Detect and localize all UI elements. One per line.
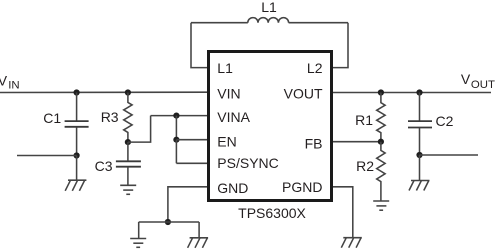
wire to earth ground bottom left bbox=[138, 222, 140, 239]
ground chassis under PGND bbox=[341, 238, 362, 248]
node VOUT rail bbox=[333, 92, 491, 94]
wire C1 bottom bbox=[76, 127, 78, 155]
resistor R2 bbox=[377, 142, 385, 201]
svg-text:PS/SYNC: PS/SYNC bbox=[217, 155, 278, 171]
svg-text:EN: EN bbox=[217, 133, 236, 149]
svg-text:OUT: OUT bbox=[471, 79, 495, 91]
node C1 top junction bbox=[74, 89, 80, 95]
wire PGND pin bbox=[333, 187, 353, 238]
svg-text:IN: IN bbox=[8, 80, 19, 92]
ground chassis bottom middle bbox=[188, 238, 209, 248]
wire C1 top bbox=[76, 93, 78, 121]
ground earth under C3 bbox=[120, 185, 136, 194]
op-amp U1 : IC box TPS6300X bbox=[209, 52, 332, 201]
node VINA junction bbox=[173, 113, 179, 119]
wire EN pin bbox=[176, 139, 207, 141]
ground earth bottom middle bbox=[130, 239, 146, 248]
svg-text:L1: L1 bbox=[261, 0, 277, 15]
svg-text:L1: L1 bbox=[217, 60, 233, 76]
wire PS/SYNC pin bbox=[176, 162, 207, 164]
svg-text:TPS6300X: TPS6300X bbox=[238, 205, 306, 221]
wire VINA pin bbox=[151, 115, 207, 117]
capacitor C3 bbox=[116, 160, 141, 162]
node R1 top junction bbox=[378, 89, 384, 95]
wire C2 bottom bbox=[419, 128, 421, 155]
wire C3 bottom bbox=[127, 167, 129, 185]
wire GND pin bbox=[168, 187, 207, 222]
resistor R3 bbox=[124, 93, 132, 143]
svg-text:VIN: VIN bbox=[217, 86, 240, 102]
node GND bottom junction bbox=[165, 219, 171, 225]
node FB junction bbox=[378, 139, 384, 145]
svg-text:VINA: VINA bbox=[217, 109, 250, 125]
ground chassis under C2 bbox=[409, 181, 430, 191]
node VIN rail bbox=[0, 91, 207, 93]
ground earth under R2 bbox=[373, 201, 389, 210]
wire to chassis ground under C2 bbox=[419, 155, 421, 181]
wire output return stub bbox=[420, 154, 479, 156]
svg-text:VOUT: VOUT bbox=[284, 86, 323, 102]
svg-text:V: V bbox=[0, 73, 8, 89]
svg-text:C3: C3 bbox=[95, 158, 113, 174]
wire loop right to L2 pin bbox=[333, 23, 348, 68]
svg-text:C2: C2 bbox=[436, 113, 454, 129]
svg-text:V: V bbox=[461, 71, 471, 87]
svg-text:R2: R2 bbox=[356, 158, 374, 174]
inductor L1 bbox=[248, 18, 289, 23]
capacitor C2 bbox=[408, 120, 432, 122]
wire L1 pin to loop left bbox=[191, 23, 207, 68]
resistor R1 bbox=[377, 93, 385, 142]
wire to ground under C1 bbox=[76, 156, 78, 181]
node C2 top junction bbox=[416, 89, 422, 95]
wire to chassis ground bottom middle bbox=[198, 222, 200, 238]
wire input return stub bbox=[17, 155, 77, 157]
wire GND bottom horizontal bbox=[139, 221, 199, 223]
svg-text:C1: C1 bbox=[43, 110, 61, 126]
svg-text:R3: R3 bbox=[101, 109, 119, 125]
svg-text:FB: FB bbox=[305, 136, 323, 152]
svg-text:GND: GND bbox=[217, 180, 248, 196]
wire C3 top bbox=[127, 142, 129, 161]
node C2 bottom junction bbox=[416, 152, 422, 158]
node EN junction bbox=[173, 137, 179, 143]
wire EN to PS/SYNC bbox=[175, 140, 177, 164]
svg-text:L2: L2 bbox=[307, 60, 323, 76]
wire VINA to EN bbox=[175, 116, 177, 140]
svg-text:R1: R1 bbox=[355, 112, 373, 128]
node R3 top junction bbox=[125, 89, 131, 95]
node C1 bottom junction bbox=[74, 152, 80, 158]
wire FB pin bbox=[333, 141, 381, 143]
wire C2 top bbox=[419, 93, 421, 121]
capacitor C1 bbox=[65, 120, 89, 122]
ground chassis under C1 bbox=[65, 180, 86, 191]
wire loop top right segment bbox=[289, 22, 348, 24]
wire loop top left segment bbox=[191, 22, 248, 24]
svg-text:PGND: PGND bbox=[282, 179, 322, 195]
wire junction to VINA net bbox=[128, 116, 151, 143]
node R3/C3 junction bbox=[125, 139, 131, 145]
